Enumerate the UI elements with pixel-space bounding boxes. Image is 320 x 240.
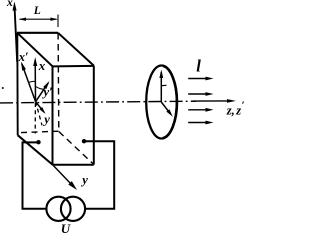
crystal top front edge — [53, 65, 94, 68]
crystal front-right vertical edge — [93, 66, 95, 165]
light beam arrow 3 — [188, 109, 207, 111]
ellipse diagonal arrowhead — [166, 109, 172, 116]
left electrode dot — [36, 140, 40, 144]
polarization ellipse right limb emphasis — [163, 66, 177, 138]
scan speck — [2, 87, 4, 89]
polarization ellipse — [146, 66, 177, 139]
crystal x axis arrow shaft — [34, 60, 36, 102]
angle arc between x' and x — [29, 81, 36, 82]
right electrode wire — [84, 141, 114, 208]
z axis solid end segment — [193, 100, 230, 102]
svg-text:y: y — [80, 173, 88, 187]
svg-text:′: ′ — [242, 100, 245, 112]
crystal hidden bottom-right depth edge (dashed) — [59, 132, 93, 164]
lab x-axis vertical line — [15, 6, 18, 62]
right electrode dot — [82, 139, 86, 143]
crystal x' axis arrow shaft — [22, 64, 36, 102]
crystal bottom front edge — [53, 164, 94, 166]
ellipse diagonal arrow shaft — [161, 102, 168, 111]
svg-text:z,: z, — [226, 103, 235, 117]
crystal x' hidden extension (dashed) — [36, 102, 42, 126]
crystal x hidden extension (dashed) — [34, 103, 36, 134]
svg-text:y′: y′ — [41, 84, 53, 99]
AC source left circle — [46, 197, 70, 221]
z axis arrowhead — [227, 99, 236, 103]
svg-text:x: x — [6, 0, 13, 9]
svg-text:z: z — [235, 103, 241, 117]
crystal hidden rear-right vertical edge (dashed) — [57, 33, 60, 132]
angle arc between x and y' — [36, 87, 44, 90]
crystal top right edge — [58, 33, 94, 66]
crystal top left edge — [17, 33, 52, 67]
crystal y short axis arrowhead — [39, 107, 45, 114]
lab x-axis arrowhead — [13, 2, 17, 11]
crystal rear-left vertical edge — [16, 33, 18, 135]
light beam arrow 2 — [188, 93, 207, 95]
ellipse tick mark — [162, 84, 167, 86]
left electrode wire — [23, 142, 47, 208]
y axis long arrow shaft — [53, 165, 73, 185]
light beam arrow 1 — [188, 78, 207, 80]
svg-text:L: L — [33, 5, 41, 17]
crystal hidden bottom rear edge (dashed) — [21, 131, 59, 132]
svg-text:l: l — [196, 56, 201, 75]
ellipse vertical arrow shaft — [160, 72, 162, 102]
z axis dash-dot line — [0, 101, 196, 103]
svg-text:x: x — [38, 58, 46, 73]
light beam arrow 4 — [188, 122, 207, 124]
svg-text:y: y — [42, 112, 50, 126]
svg-text:x′: x′ — [18, 50, 29, 64]
crystal bottom-left depth edge — [18, 135, 53, 164]
crystal y short axis arrow shaft — [36, 102, 44, 113]
crystal front-left vertical edge — [52, 66, 54, 164]
y axis long arrowhead — [68, 181, 77, 190]
dimension line L — [20, 18, 57, 20]
dimension arrowhead left — [19, 18, 26, 21]
crystal y' axis arrowhead — [43, 81, 49, 89]
dimension arrowhead right — [50, 18, 57, 21]
dimension extension line right — [57, 15, 59, 28]
crystal y' axis arrow shaft — [36, 83, 49, 102]
crystal top rear edge — [17, 32, 58, 34]
crystal x' axis arrowhead — [21, 62, 26, 71]
ellipse vertical arrowhead — [159, 70, 163, 79]
crystal x axis arrowhead — [33, 57, 37, 66]
svg-text:U: U — [61, 221, 71, 233]
AC source right circle — [61, 197, 85, 221]
